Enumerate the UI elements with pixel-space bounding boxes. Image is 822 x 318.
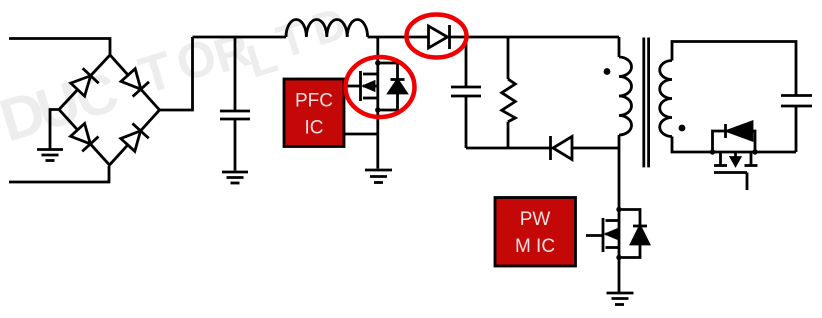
- wire bridge output riser: [160, 37, 193, 110]
- ground (C1): [222, 172, 248, 183]
- svg-text:IC: IC: [305, 118, 324, 139]
- svg-text:PFC: PFC: [295, 91, 333, 112]
- transformer core: [644, 38, 649, 168]
- svg-text:T: T: [271, 10, 313, 68]
- transistor Q2 (PWM MOSFET): [586, 207, 649, 260]
- capacitor C1: [220, 37, 250, 171]
- wire main rail left: [193, 36, 287, 39]
- diode D3 (bridge lower-left): [69, 123, 98, 152]
- wire secondary top: [672, 42, 796, 96]
- wire Q1 source to ground: [376, 110, 379, 169]
- transformer T1 secondary winding: [660, 61, 672, 137]
- diode D5 (boost): [429, 25, 450, 49]
- wire rail right: [450, 36, 620, 39]
- ground (bridge): [37, 110, 63, 161]
- diode D1 (bridge upper-left): [70, 68, 99, 97]
- bridge rectifier edges: [59, 55, 160, 165]
- svg-text:PW: PW: [520, 209, 551, 230]
- capacitor C2: [451, 37, 481, 148]
- transistor Q1 (PFC MOSFET): [346, 37, 406, 113]
- wire clamp to primary: [572, 147, 619, 150]
- wire AC input top: [9, 39, 110, 57]
- ground (Q1): [365, 170, 392, 183]
- watermark DUCTOR LTD: [0, 0, 352, 154]
- PFC IC box: [284, 79, 344, 147]
- wire Q2 source to ground: [618, 258, 621, 293]
- resistor R1: [502, 37, 516, 148]
- node secondary dot: [679, 125, 686, 132]
- wire AC input bottom: [9, 166, 109, 182]
- diode D4 (bridge lower-right): [120, 123, 149, 152]
- capacitor C3 (output): [781, 96, 812, 153]
- transformer T1 primary lead top: [618, 37, 621, 57]
- wire primary bottom to Q2 drain: [618, 135, 621, 210]
- ground (Q2): [607, 293, 634, 305]
- inductor L1: [286, 19, 368, 37]
- highlight circle (D5): [407, 15, 467, 58]
- wire clamp bottom: [466, 147, 550, 150]
- node primary dot: [604, 68, 611, 75]
- wire PFC IC to Q1 source: [345, 133, 378, 136]
- wire rail to boost diode: [368, 36, 429, 39]
- diode D6 (clamp): [551, 136, 573, 160]
- svg-text:M IC: M IC: [515, 236, 555, 257]
- transformer T1 primary winding: [619, 57, 632, 135]
- diode D2 (bridge upper-right): [120, 68, 149, 97]
- PWM IC box: [495, 198, 576, 267]
- transistor Q3 (sync rectifier): [710, 122, 758, 190]
- wire secondary bottom: [672, 137, 796, 153]
- highlight circle (Q1): [346, 57, 415, 117]
